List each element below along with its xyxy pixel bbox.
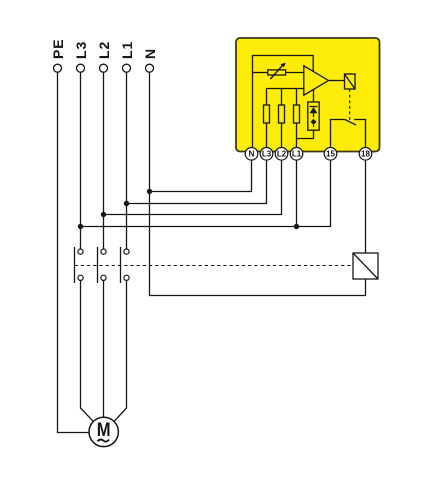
- relay terminal L1: [290, 148, 303, 161]
- node L2 terminal circle: [100, 64, 108, 72]
- wire amplifier to power supply block: [313, 89, 315, 102]
- wire internal N rail (terminal N up, across top, down into amplifier): [253, 56, 314, 148]
- contactor coil K1M: [353, 253, 378, 279]
- wire resistor R1 bottom lead to terminal L3: [266, 123, 268, 148]
- wire supply L1 to relay terminal L3: [127, 160, 267, 204]
- junction on L3 line: [78, 224, 83, 229]
- relay contact 15-18: [331, 120, 366, 148]
- wire L3 vertical upper: [80, 72, 82, 249]
- contactor pole 1 (L3) top contact: [78, 249, 83, 254]
- resistor R3: [294, 105, 300, 123]
- potentiometer (setpoint adjust): [268, 63, 286, 79]
- op-amp U1 comparator triangle: [304, 66, 329, 95]
- wire PE vertical down to motor: [58, 72, 90, 432]
- relay terminal N: [245, 148, 258, 161]
- power supply block with diodes: [308, 102, 319, 130]
- svg-text:L2: L2: [96, 41, 112, 59]
- wire potentiometer input: [253, 72, 268, 74]
- relay module body (yellow): [236, 38, 380, 152]
- motor M1: [89, 417, 118, 446]
- relay terminal L3: [260, 148, 273, 161]
- relay terminal L2: [275, 148, 288, 161]
- relay terminal 15: [324, 148, 337, 161]
- contactor pole 3 bridge bar: [120, 247, 122, 283]
- wire relay terminal L1 drop: [296, 160, 298, 227]
- svg-text:N: N: [249, 150, 255, 159]
- svg-text:L3: L3: [73, 41, 89, 59]
- junction below relay terminal L1: [294, 224, 299, 229]
- wire amplifier output to relay coil: [329, 80, 345, 82]
- node L1 terminal circle: [123, 64, 131, 72]
- wire potentiometer to amplifier: [286, 72, 304, 74]
- svg-text:L1: L1: [119, 41, 135, 59]
- node PE terminal circle: [54, 64, 62, 72]
- resistor R2: [279, 105, 285, 123]
- resistor R1: [264, 105, 270, 123]
- wire measuring bus to amplifier: [267, 88, 305, 90]
- wire resistor R1 top lead: [266, 89, 268, 106]
- wire N vertical and return to contactor coil: [150, 72, 366, 295]
- mechanical link contacts to contactor coil (dashed): [75, 265, 354, 267]
- svg-text:L1: L1: [292, 150, 302, 159]
- contactor pole 3 (L1) top contact: [124, 249, 129, 254]
- node L3 terminal circle: [77, 64, 85, 72]
- contactor pole 3 bottom contact: [124, 275, 129, 280]
- svg-text:L3: L3: [262, 150, 272, 159]
- wire relay terminal 18 to contactor coil: [365, 160, 367, 253]
- contactor pole 2 bridge bar: [97, 247, 99, 283]
- node N terminal circle: [146, 64, 154, 72]
- wire supply N to relay terminal N: [150, 160, 252, 192]
- svg-text:M: M: [97, 420, 111, 441]
- contactor pole 2 (L2) top contact: [101, 249, 106, 254]
- relay coil K1: [345, 74, 356, 89]
- junction on L1 line: [124, 201, 129, 206]
- wire L3 lower to motor: [81, 280, 94, 421]
- wire supply L2 to relay terminal L2: [104, 160, 282, 215]
- svg-text:N: N: [142, 49, 158, 59]
- wire L2 vertical upper: [103, 72, 105, 249]
- wire resistor R2 bottom lead to terminal L2: [281, 123, 283, 148]
- contactor pole 1 bridge bar: [74, 247, 76, 283]
- junction on N line: [147, 189, 152, 194]
- mechanical link relay coil to contact (dashed): [349, 89, 351, 122]
- relay terminal 18: [359, 148, 372, 161]
- wire L1 lower to motor: [114, 280, 126, 421]
- wire resistor R2 top lead: [281, 89, 283, 106]
- contactor pole 2 bottom contact: [101, 275, 106, 280]
- wire L1 vertical upper: [126, 72, 128, 249]
- wire resistor R3 bottom lead to terminal L1: [296, 123, 298, 148]
- wire resistor R3 top lead: [296, 89, 298, 106]
- svg-text:18: 18: [361, 150, 370, 159]
- svg-text:L2: L2: [277, 150, 287, 159]
- contactor pole 1 bottom contact: [78, 275, 83, 280]
- wire L2 lower to motor: [103, 280, 105, 417]
- wire supply L3 to relay terminals L1 and 15: [81, 160, 331, 227]
- svg-text:15: 15: [326, 150, 335, 159]
- wire power supply return to L1: [297, 130, 314, 138]
- junction on L2 line: [101, 212, 106, 217]
- svg-text:PE: PE: [50, 39, 66, 59]
